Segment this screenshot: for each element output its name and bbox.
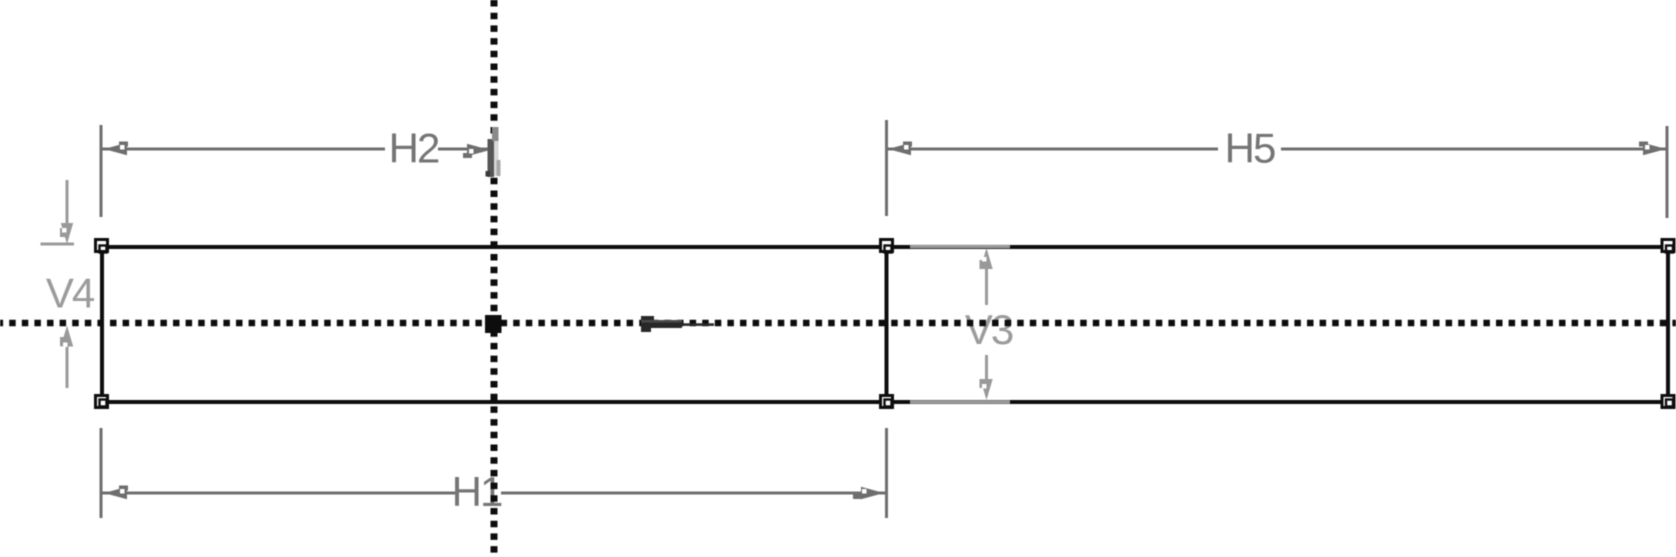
- svg-text:H2: H2: [389, 125, 439, 172]
- svg-text:V4: V4: [46, 270, 95, 317]
- svg-text:H5: H5: [1225, 125, 1275, 172]
- svg-text:V3: V3: [965, 306, 1013, 353]
